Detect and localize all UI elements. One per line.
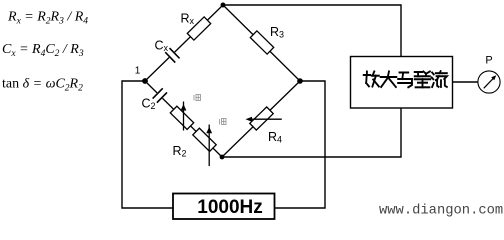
resistor Rx bbox=[187, 17, 210, 40]
capacitor C2 bbox=[151, 87, 168, 104]
rheostat R2 fine arrow bbox=[208, 125, 210, 167]
rheostat R2 coarse element bbox=[170, 106, 193, 129]
node bottom dot bbox=[220, 155, 225, 160]
svg-text:www.diangon.com: www.diangon.com bbox=[379, 203, 503, 219]
wire arm left-top (Cx Rx) bbox=[145, 5, 223, 81]
svg-text:1: 1 bbox=[135, 66, 141, 77]
label coarse (zh) bbox=[194, 95, 201, 101]
oscillator box 1000Hz bbox=[173, 194, 275, 220]
svg-text:Cx: Cx bbox=[155, 39, 169, 54]
svg-text:R3: R3 bbox=[270, 25, 284, 40]
wire arm bottom-right (R4) bbox=[222, 81, 300, 157]
wire arm left-bottom (C2 R2) bbox=[145, 81, 222, 157]
node right dot bbox=[297, 78, 303, 84]
zh char zheng bbox=[415, 72, 431, 88]
wire arm top-right (R3) bbox=[223, 5, 300, 81]
wire oscillator right to bridge right node bbox=[275, 81, 325, 208]
zh char da bbox=[381, 72, 397, 88]
wire left-node to left rail bbox=[122, 81, 173, 208]
meter P circle bbox=[478, 71, 500, 93]
svg-text:R4: R4 bbox=[268, 130, 282, 145]
wire bottom node to amplifier bbox=[222, 108, 401, 157]
rheostat R2 fine element bbox=[193, 128, 216, 151]
wire amplifier to meter bbox=[453, 81, 478, 83]
wire top node to amplifier bbox=[223, 5, 401, 57]
resistor R3 bbox=[250, 31, 273, 54]
rheostat R4 arrow bbox=[249, 118, 282, 120]
svg-text:Rx: Rx bbox=[181, 12, 195, 27]
amplifier text (zh: fang da yu zheng liu) drawn as strokes bbox=[364, 71, 447, 87]
svg-text:Cx = R4C2 / R3: Cx = R4C2 / R3 bbox=[2, 42, 84, 59]
svg-text:Rx = R2R3 / R4: Rx = R2R3 / R4 bbox=[7, 10, 88, 27]
zh char liu bbox=[432, 71, 447, 87]
node 1 dot (left) bbox=[142, 78, 148, 84]
rheostat R2 coarse arrow bbox=[183, 102, 185, 131]
capacitor Cx bbox=[164, 47, 181, 64]
node top dot bbox=[221, 3, 226, 8]
rheostat R4 bbox=[250, 107, 273, 130]
label fine (zh) bbox=[220, 119, 227, 125]
zh char yu bbox=[398, 73, 412, 88]
amplifier box bbox=[351, 57, 453, 109]
svg-text:R2: R2 bbox=[173, 144, 187, 159]
svg-text:tan δ = ωC2R2: tan δ = ωC2R2 bbox=[2, 77, 83, 94]
svg-text:1000Hz: 1000Hz bbox=[197, 197, 263, 218]
zh char fang bbox=[364, 72, 379, 87]
svg-text:P: P bbox=[485, 55, 492, 67]
meter needle bbox=[484, 78, 494, 88]
